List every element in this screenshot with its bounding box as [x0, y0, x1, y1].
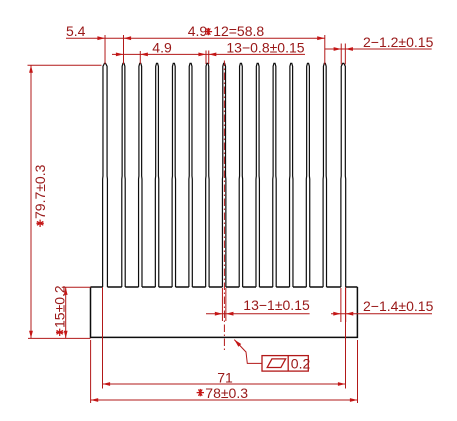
arrows dim D 2-1.4 [333, 312, 341, 316]
fin 14 [323, 63, 326, 287]
svg-text:2−1.4±0.15: 2−1.4±0.15 [363, 298, 434, 314]
svg-text:79.7±0.3: 79.7±0.3 [32, 164, 48, 219]
svg-text:13−1±0.15: 13−1±0.15 [243, 297, 310, 313]
arrows 79.7 [29, 65, 33, 73]
ext line fin3 center [139, 51, 141, 64]
svg-text:2−1.2±0.15: 2−1.2±0.15 [363, 34, 434, 50]
fin 6 [189, 63, 192, 287]
ext line fin2 center [123, 35, 125, 64]
fin 15 [341, 63, 346, 287]
ext line fin14 center [324, 35, 326, 65]
fin 9 [239, 63, 242, 287]
fin 2 [122, 63, 125, 287]
ext line at base top [62, 286, 91, 288]
svg-text:71: 71 [217, 369, 233, 385]
fin 7 [206, 63, 209, 287]
svg-text:5.4: 5.4 [66, 23, 86, 39]
label *78 [197, 389, 204, 396]
arrows dim A [97, 36, 105, 40]
ext lines for 71 [102, 287, 104, 388]
centerline center fin [223, 61, 225, 353]
dim line 79.7 vertical [30, 65, 32, 338]
fin 13 [306, 63, 309, 287]
ext line fin1 center [104, 35, 106, 64]
flatness leader [234, 340, 262, 364]
arrows 78 [91, 398, 99, 402]
ext lines fin8 bottom width [221, 288, 223, 321]
svg-text:15±0.2: 15±0.2 [51, 285, 67, 328]
flatness symbol parallelogram [267, 359, 285, 368]
svg-text:13−0.8±0.15: 13−0.8±0.15 [226, 39, 304, 55]
fin 12 [290, 63, 293, 287]
fin 4 [155, 63, 158, 287]
svg-text:4.9: 4.9 [152, 39, 172, 55]
heatsink base [91, 287, 358, 337]
arrows dim C [334, 47, 342, 51]
arrows dim B [116, 53, 124, 57]
dim line 78 [91, 399, 358, 401]
fin 5 [172, 63, 175, 287]
dim line 5.4 / 4.9*12=58.8 [66, 37, 325, 39]
fin 1 [103, 63, 108, 287]
label *79.7 rotated [32, 164, 48, 227]
fin 10 [256, 63, 259, 287]
dim line 13-1 [206, 313, 310, 315]
flatness frame [262, 356, 308, 372]
ext lines fin7 top width [205, 51, 207, 65]
dim line 4.9 / 13-0.8 [112, 53, 305, 55]
ext lines for 78 [90, 340, 92, 403]
fin 11 [273, 63, 276, 287]
dim line 2-1.4 [331, 313, 432, 315]
dim line 71 [103, 383, 346, 385]
svg-text:0.2: 0.2 [291, 356, 311, 372]
svg-text:78±0.3: 78±0.3 [205, 385, 248, 401]
ext line top at fin tips [28, 64, 102, 66]
arrows dim D 13-1 [215, 312, 223, 316]
label *15 rotated [51, 285, 67, 336]
base top surface segments [91, 286, 358, 288]
dim line 15 vertical [65, 287, 67, 338]
arrows 15 [64, 287, 68, 295]
fin 8 [222, 63, 225, 287]
ext lines fin15 top width [340, 44, 342, 65]
ext lines fin15 bottom width [340, 288, 342, 322]
fin 3 [139, 63, 142, 287]
svg-text:12=58.8: 12=58.8 [213, 23, 264, 39]
dim line 2-1.2 [325, 48, 432, 50]
ext line bottom at base bottom [28, 337, 91, 339]
arrows 71 [103, 382, 111, 386]
svg-text:4.9: 4.9 [188, 23, 208, 39]
